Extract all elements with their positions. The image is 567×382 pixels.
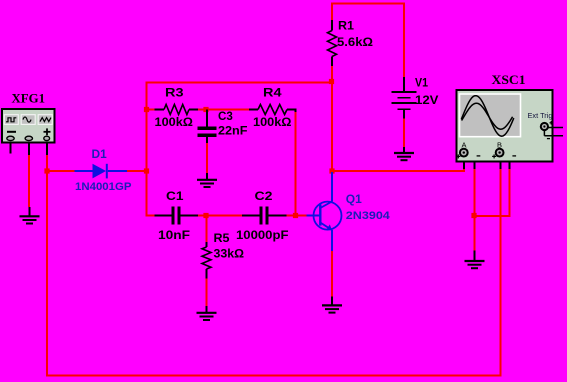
- svg-text:100kΩ: 100kΩ: [253, 115, 292, 129]
- svg-text:C3: C3: [218, 109, 233, 123]
- svg-text:R1: R1: [338, 19, 354, 33]
- svg-text:22nF: 22nF: [218, 124, 248, 138]
- svg-text:XFG1: XFG1: [12, 92, 46, 106]
- svg-text:10000pF: 10000pF: [236, 228, 289, 242]
- svg-text:V1: V1: [415, 75, 428, 89]
- svg-text:C1: C1: [166, 189, 184, 203]
- svg-text:2N3904: 2N3904: [346, 210, 391, 222]
- svg-text:1N4001GP: 1N4001GP: [75, 181, 132, 193]
- svg-text:R3: R3: [165, 85, 184, 99]
- svg-text:12V: 12V: [415, 93, 439, 107]
- svg-text:5.6kΩ: 5.6kΩ: [337, 35, 373, 49]
- svg-text:10nF: 10nF: [158, 228, 190, 242]
- svg-text:D1: D1: [92, 147, 108, 161]
- svg-text:R4: R4: [263, 85, 282, 99]
- svg-text:R5: R5: [214, 231, 230, 245]
- svg-text:Ext Trig: Ext Trig: [528, 111, 553, 120]
- svg-text:Q1: Q1: [346, 192, 362, 206]
- svg-text:C2: C2: [255, 189, 273, 203]
- svg-text:100kΩ: 100kΩ: [155, 115, 194, 129]
- svg-text:XSC1: XSC1: [492, 73, 526, 87]
- svg-text:33kΩ: 33kΩ: [214, 247, 245, 261]
